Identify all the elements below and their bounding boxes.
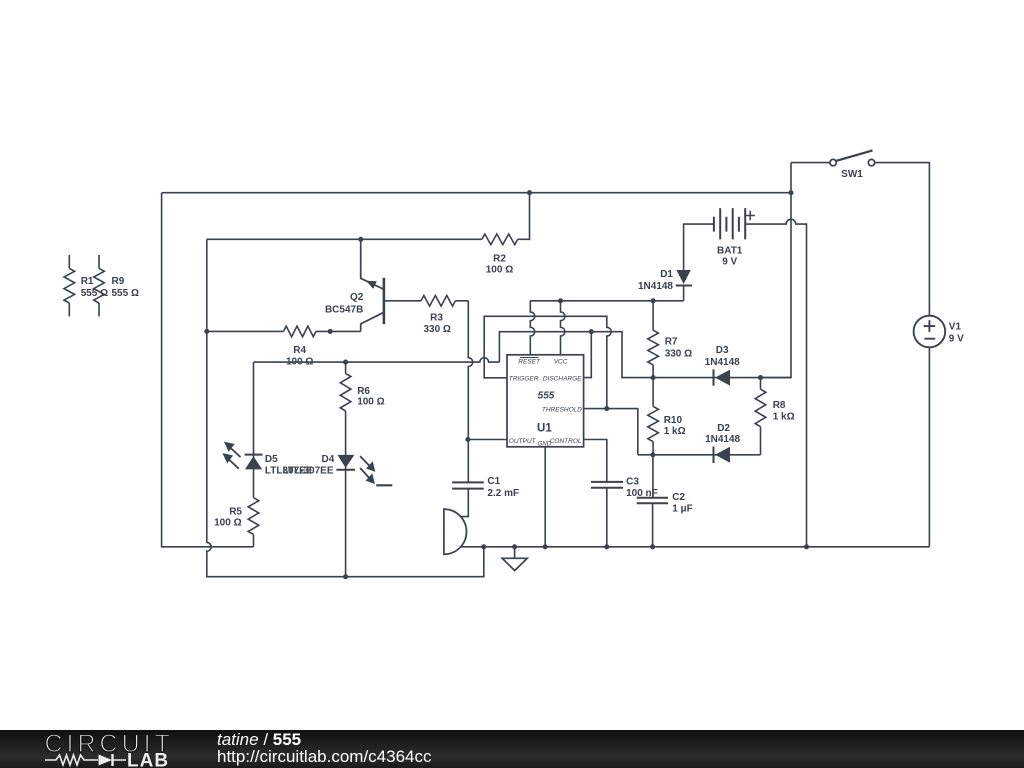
wire C1 bottom lead xyxy=(461,489,469,517)
svg-text:9 V: 9 V xyxy=(949,334,964,345)
svg-text:TRIGGER: TRIGGER xyxy=(509,376,539,383)
svg-text:D5: D5 xyxy=(265,454,278,465)
svg-text:R10: R10 xyxy=(664,415,683,426)
node R4 right xyxy=(328,329,333,334)
svg-text:V1: V1 xyxy=(949,321,962,332)
svg-text:C1: C1 xyxy=(487,476,500,487)
wire left rail xyxy=(162,193,254,547)
svg-text:DISCHARGE: DISCHARGE xyxy=(543,376,582,383)
wire D4 stem xyxy=(345,411,347,577)
diode D1 xyxy=(638,269,692,292)
svg-text:R2: R2 xyxy=(493,254,506,265)
capacitor C2 xyxy=(637,455,693,515)
CircuitLab logo xyxy=(30,730,230,768)
svg-text:Q2: Q2 xyxy=(350,292,364,303)
svg-text:9 V: 9 V xyxy=(722,256,737,267)
wire inner-left rail with hop xyxy=(207,239,484,576)
svg-text:1 kΩ: 1 kΩ xyxy=(664,426,686,437)
resistor R4 xyxy=(207,326,361,367)
svg-text:330 Ω: 330 Ω xyxy=(665,349,692,360)
svg-text:RESET: RESET xyxy=(518,358,541,365)
svg-text:R1: R1 xyxy=(81,276,94,287)
switch SW1 xyxy=(830,150,875,180)
node D3-R8 junction xyxy=(758,375,763,380)
diode D5 LED xyxy=(222,442,278,470)
diode D2 xyxy=(705,423,740,463)
node top-right junction xyxy=(788,190,793,195)
node bus-C3 xyxy=(604,544,609,549)
node output junction xyxy=(465,437,470,442)
wire threshold riser with hop xyxy=(484,316,611,408)
wire D1 bottom lead xyxy=(683,286,685,301)
svg-text:555: 555 xyxy=(538,391,555,402)
wire D5 stem xyxy=(253,362,255,498)
resistor R9 xyxy=(94,255,139,317)
wire switch right lead xyxy=(875,163,930,316)
svg-text:1 kΩ: 1 kΩ xyxy=(773,412,795,423)
node Q2 emitter riser top xyxy=(358,237,363,242)
wire VCC riser with hops xyxy=(561,301,565,355)
svg-text:LAB: LAB xyxy=(127,750,169,768)
svg-text:VCC: VCC xyxy=(554,358,568,365)
svg-text:D2: D2 xyxy=(717,423,730,434)
node D4 bottom xyxy=(343,574,348,579)
svg-text:R4: R4 xyxy=(293,345,306,356)
wire ground bus xyxy=(461,546,930,548)
node R7 top xyxy=(651,298,656,303)
wire C3 bottom lead xyxy=(606,488,608,547)
diode D3 xyxy=(705,345,740,386)
svg-text:R3: R3 xyxy=(430,313,443,324)
footer bar xyxy=(0,730,1024,768)
node R7 bottom xyxy=(651,375,656,380)
node bus-leftdrop xyxy=(481,544,486,549)
wire RESET riser with hops xyxy=(530,301,534,355)
wire top rail xyxy=(162,192,791,194)
resistor R8 xyxy=(755,378,794,455)
node threshold junction xyxy=(604,406,609,411)
wire reset-vcc top line xyxy=(530,300,683,302)
node R4 left xyxy=(204,329,209,334)
wire threshold stub xyxy=(584,409,638,455)
svg-text:1 μF: 1 μF xyxy=(672,504,693,515)
transistor Q2 xyxy=(325,239,421,331)
wire GND pin lead xyxy=(544,447,546,547)
svg-text:THRESHOLD: THRESHOLD xyxy=(542,407,582,414)
diode D4 LED xyxy=(322,454,393,485)
resistor R2 xyxy=(482,193,530,276)
node C2 top xyxy=(650,452,655,457)
svg-text:U1: U1 xyxy=(537,422,552,434)
node discharge line3 xyxy=(589,329,594,334)
wire control stub xyxy=(584,440,607,482)
svg-text:BAT1: BAT1 xyxy=(717,245,743,256)
node top-left junction to R2 xyxy=(527,190,532,195)
wire discharge stub xyxy=(584,332,592,378)
svg-text:C3: C3 xyxy=(626,477,639,488)
svg-text:R8: R8 xyxy=(773,400,786,411)
svg-text:OUTPUT: OUTPUT xyxy=(509,438,537,445)
node bus-C2 xyxy=(650,544,655,549)
op-amp U1 555 box xyxy=(507,355,584,448)
svg-text:R9: R9 xyxy=(112,276,125,287)
wire switch riser xyxy=(761,163,792,378)
wire battery left lead xyxy=(684,224,714,270)
capacitor C3 xyxy=(591,477,658,500)
svg-text:R6: R6 xyxy=(357,386,370,397)
resistor R10 xyxy=(648,378,686,455)
wire OUTPUT stub xyxy=(468,439,507,441)
node R6 top xyxy=(343,360,348,365)
svg-text:330 Ω: 330 Ω xyxy=(423,324,450,335)
wire inner top line xyxy=(207,238,482,240)
svg-text:1N4148: 1N4148 xyxy=(705,434,740,445)
wire mid row 377 xyxy=(499,332,791,378)
wire trigger row with hop xyxy=(254,358,500,362)
svg-text:R5: R5 xyxy=(229,506,242,517)
resistor R6 xyxy=(340,362,384,411)
source V1 xyxy=(914,316,965,348)
svg-text:100 Ω: 100 Ω xyxy=(357,397,384,408)
wire threshold row 454 xyxy=(638,454,761,456)
node bus-gndsym xyxy=(512,544,517,549)
node bus-gndpin xyxy=(543,544,548,549)
svg-text:R7: R7 xyxy=(665,337,678,348)
svg-text:BC547B: BC547B xyxy=(325,304,363,315)
node vcc riser top xyxy=(558,298,563,303)
svg-text:D3: D3 xyxy=(716,345,729,356)
svg-text:1N4148: 1N4148 xyxy=(638,281,673,292)
wire C2 bottom lead xyxy=(652,503,654,547)
svg-text:LTL-307EE: LTL-307EE xyxy=(283,466,334,477)
footer title text xyxy=(217,731,431,767)
resistor R3 xyxy=(421,296,468,335)
svg-text:D4: D4 xyxy=(322,454,335,465)
ground symbol xyxy=(502,547,527,571)
wire output riser with hop xyxy=(468,301,472,483)
svg-text:CONTROL: CONTROL xyxy=(550,438,582,445)
svg-text:2.2 mF: 2.2 mF xyxy=(487,488,519,499)
wire switch left lead xyxy=(791,162,830,164)
wire battery right lead with hop xyxy=(745,219,806,546)
svg-text:C2: C2 xyxy=(672,492,685,503)
svg-text:555 Ω: 555 Ω xyxy=(112,288,139,299)
resistor R5 xyxy=(214,498,259,547)
capacitor C1 xyxy=(452,476,519,499)
svg-text:100 Ω: 100 Ω xyxy=(214,517,241,528)
node bus-battery xyxy=(804,544,809,549)
svg-text:D1: D1 xyxy=(660,269,673,280)
resistor R7 xyxy=(648,301,692,378)
svg-text:100 Ω: 100 Ω xyxy=(486,265,513,276)
svg-text:SW1: SW1 xyxy=(841,169,863,180)
wire V1 bottom lead xyxy=(928,347,930,547)
resistor R1 xyxy=(64,255,108,317)
battery BAT1 xyxy=(714,208,755,267)
buzzer X1 xyxy=(444,509,467,554)
svg-text:1N4148: 1N4148 xyxy=(705,357,740,368)
